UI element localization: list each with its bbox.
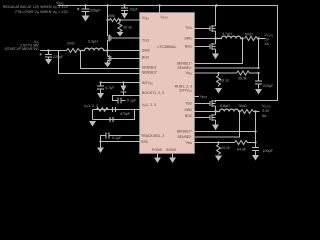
node I [106,49,108,51]
wire SENSE2+ [195,131,256,133]
svg-text:SW1: SW1 [184,37,192,41]
node C [106,4,108,6]
ground [154,158,161,164]
svg-text:SENSE3+​: SENSE3+​ [142,71,158,75]
wire VIN input [40,50,67,52]
svg-text:4.7µH: 4.7µH [222,32,232,36]
svg-text:220µF: 220µF [53,55,64,59]
resistor R9 64.9k [235,141,256,145]
node R [257,72,259,74]
diode D1 [121,83,127,96]
node O [257,37,259,39]
node P [257,67,259,69]
svg-text:SS3: SS3 [141,140,148,144]
node N [241,37,243,39]
svg-text:470pF: 470pF [120,112,131,116]
wire SENSE2- [195,112,240,138]
svg-text:5V: 5V [265,38,270,42]
IC pin labels dark [141,15,193,152]
capacitor C6 comp [113,107,116,112]
svg-text:SGND: SGND [166,148,177,152]
wire SW2 [195,111,220,113]
wire [101,136,107,148]
capacitor C5 0.1uF x3 [118,98,126,104]
node X [254,141,256,143]
resistor R6 36.5k [237,71,259,75]
wire TRACK/SS [110,135,141,137]
transistor Q4 buck1 bottom [195,39,216,54]
svg-text:68.1k: 68.1k [220,79,229,83]
svg-text:220µF: 220µF [263,84,274,88]
svg-text:SENSE1+​: SENSE1+​ [177,62,193,66]
resistor R3 2mOhm sense [67,49,80,53]
svg-text:44.2k: 44.2k [221,146,230,150]
ground [82,16,90,22]
resistor R7 68.1k [217,73,221,87]
ground [97,93,104,99]
ground [89,121,96,127]
svg-text:LTC3859AL: LTC3859AL [158,45,177,49]
wire INTVCC [101,82,141,84]
wire SW3 [104,50,141,52]
svg-text:5mΩ: 5mΩ [245,33,253,37]
svg-text:3.3µH: 3.3µH [88,40,98,44]
svg-text:22µF: 22µF [130,8,139,12]
wire SENSE3+ [59,51,141,74]
inductor L1 4.7uH [216,36,243,38]
svg-text:4.7µF: 4.7µF [105,86,115,90]
svg-text:BG2: BG2 [185,114,192,118]
svg-text:SW2: SW2 [184,108,192,112]
wire SW1 [195,38,221,40]
ground [104,63,111,68]
wire BOOST1,2,3 [113,96,141,101]
node F [106,19,108,21]
resistor R5 5mOhm [245,37,259,41]
node L [99,140,101,142]
resistor R10 44.2k [217,143,221,155]
svg-text:4A: 4A [265,42,270,46]
wire VOUT2 [256,111,260,113]
wire SENSE1- [195,39,259,69]
wire VOUT2 cap branch [255,112,257,148]
ground [97,148,104,154]
inductor L2 8.8uH [216,109,241,111]
svg-text:330µF: 330µF [90,9,101,13]
node T [238,110,240,112]
capacitor C10 100uF [252,148,259,156]
transistor Q5 buck2 top [195,100,216,112]
node E [215,4,217,6]
svg-text:SENSE3-​: SENSE3-​ [142,66,157,70]
svg-text:SENSE2+​: SENSE2+​ [177,130,193,134]
wire PGND [157,154,159,158]
svg-text:30.1k: 30.1k [123,26,132,30]
wire SGND [172,154,174,158]
svg-text:(START-UP ABOVE 5V): (START-UP ABOVE 5V) [5,47,39,51]
svg-text:SENSE2-​: SENSE2-​ [177,135,192,139]
svg-text:400k: 400k [107,14,115,18]
wire VFB2 [195,142,235,144]
svg-text:8.8µH: 8.8µH [220,104,230,108]
ground [215,88,222,94]
svg-text:PGND: PGND [152,148,163,152]
node M [214,37,216,39]
resistor R4 comp [97,108,109,112]
capacitor C9 220uF [255,81,262,89]
wire SS3 [101,141,141,143]
svg-text:TRACK/SS1, 2: TRACK/SS1, 2 [141,134,164,138]
svg-text:5mΩ: 5mΩ [239,104,247,108]
node A [158,4,160,6]
ground [117,32,124,37]
node B [84,4,86,6]
svg-text:SENSE1-​: SENSE1-​ [177,66,192,70]
ground [169,158,176,164]
node W [217,141,219,143]
svg-text:36.5k: 36.5k [238,77,247,81]
ground [255,89,262,95]
svg-text:TG2: TG2 [185,102,192,106]
svg-text:0.1µF: 0.1µF [127,99,137,103]
svg-text:100µF: 100µF [263,149,274,153]
wire ITH [93,110,141,120]
node H [47,49,49,51]
node V [254,130,256,132]
transistor Q1 boost top [108,35,141,51]
wire VFB1 [195,72,237,74]
svg-text:SW3: SW3 [142,49,150,53]
node Q [217,72,219,74]
inductor L3 3.3uH [80,48,108,50]
node K [122,81,124,83]
node S [214,110,216,112]
capacitor C8 0.1uF SS [106,133,109,139]
wire VOUT1 cap branch [258,73,260,81]
capacitor C1 330uF [77,6,90,16]
node D [123,4,125,6]
transistor Q6 buck2 bottom [195,112,216,125]
wire VBIAS to divider and boost FET drain [107,6,109,37]
ground [215,156,222,162]
svg-text:BG3: BG3 [142,56,149,60]
svg-text:0.1µF: 0.1µF [112,136,122,140]
ground [252,155,259,161]
svg-text:BG1: BG1 [185,45,192,49]
wire EXTVCC stub [195,96,200,98]
svg-text:64.9k: 64.9k [237,148,246,152]
wire SENSE3- [81,51,141,69]
wire VFB3 [120,19,141,21]
op-amp U1 [140,13,195,154]
ground [45,59,52,65]
svg-text:FOLLOWS VIN​ WHEN VIN​ < 12V: FOLLOWS VIN​ WHEN VIN​ < 12V [15,10,68,15]
capacitor C2 22uF [121,6,128,14]
ground [212,125,219,131]
capacitor C3 220uF [40,51,53,60]
wire [58,6,278,103]
resistor R2 30.1k [118,20,122,32]
node G [119,19,121,21]
svg-text:8A: 8A [262,114,267,118]
wire SENSE1+ [195,39,243,64]
ground [121,13,128,19]
capacitor C7 comp [110,117,113,122]
wire [159,6,161,14]
svg-text:TG1: TG1 [185,26,192,30]
node U [254,110,256,112]
svg-text:3.3V: 3.3V [262,109,270,113]
transistor Q3 buck1 top [195,6,216,39]
svg-text:TG3: TG3 [142,39,149,43]
node J [99,81,101,83]
capacitor C4 4.7uF [97,83,104,94]
resistor R8 5mOhm buck2 [241,110,256,114]
svg-text:2mΩ: 2mΩ [67,42,75,46]
wire VOUT1 [259,38,266,40]
text annotations gray [3,1,274,153]
resistor R1 400k [108,18,121,21]
svg-text:REGULATING AT 12V WHEN VIN​ ≥: REGULATING AT 12V WHEN VIN​ ≥ 12V [3,5,69,10]
ground [212,54,219,60]
svg-text:BOOST1, 2, 3: BOOST1, 2, 3 [142,91,164,95]
transistor Q2 boost bottom [108,51,141,63]
